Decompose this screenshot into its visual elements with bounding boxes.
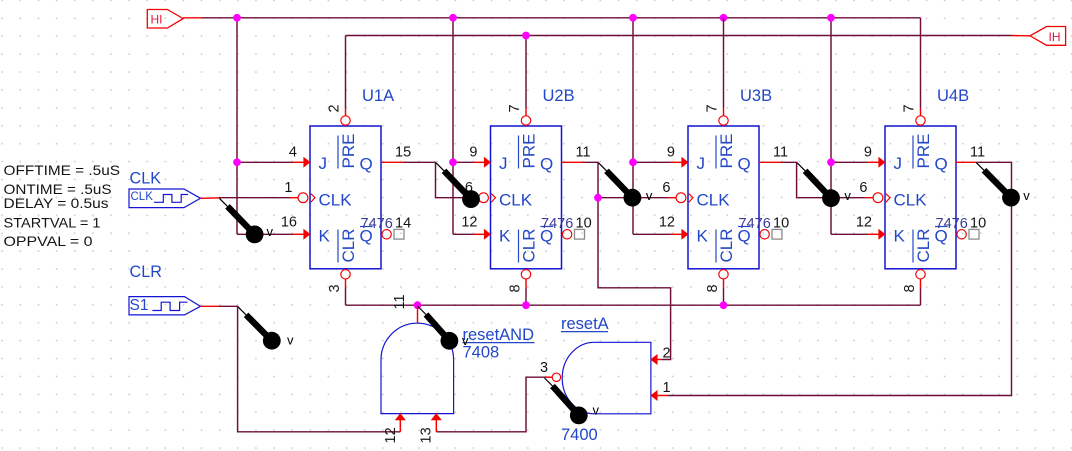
svg-text:10: 10 bbox=[773, 216, 789, 232]
probe v on CLK net bbox=[220, 198, 274, 243]
note ONTIME bbox=[4, 181, 112, 197]
svg-text:CLR: CLR bbox=[914, 228, 933, 262]
pin number 11 (U2B Q) bbox=[576, 145, 591, 161]
svg-text:CLK: CLK bbox=[130, 170, 162, 188]
svg-text:9: 9 bbox=[864, 145, 872, 161]
label resetA bbox=[561, 315, 609, 333]
svg-text:8: 8 bbox=[508, 284, 524, 292]
unconnected pin marker U3B pin 10 bbox=[772, 229, 782, 239]
svg-text:9: 9 bbox=[667, 145, 675, 161]
svg-text:15: 15 bbox=[395, 145, 411, 161]
svg-text:v: v bbox=[1023, 188, 1030, 203]
svg-text:CLK: CLK bbox=[894, 191, 928, 210]
pin number 10 (U4B Qbar) bbox=[970, 216, 986, 232]
switch source S1 bbox=[129, 297, 201, 315]
probe v on U2B Q net bbox=[599, 163, 653, 207]
svg-text:U2B: U2B bbox=[543, 87, 575, 105]
pin number 2 (NAND input) bbox=[663, 346, 671, 362]
label 7400 bbox=[561, 426, 598, 444]
svg-text:v: v bbox=[462, 333, 469, 348]
pin number 12 (U3B K) bbox=[659, 215, 675, 231]
svg-text:7476: 7476 bbox=[739, 216, 771, 232]
svg-text:v: v bbox=[646, 188, 653, 203]
svg-text:K: K bbox=[894, 227, 906, 246]
svg-text:Q: Q bbox=[540, 155, 553, 174]
J-K flip-flop U3B 7476 bbox=[676, 116, 769, 279]
junction J branch U2B bbox=[449, 158, 457, 166]
note OFFTIME bbox=[4, 162, 121, 178]
svg-text:IH: IH bbox=[1049, 30, 1061, 44]
svg-text:J: J bbox=[499, 154, 508, 173]
svg-text:10: 10 bbox=[970, 216, 986, 232]
wire CLK source to U1A CLK bbox=[201, 197, 299, 200]
wire HI to J/K of U4B bbox=[831, 18, 881, 235]
svg-text:7400: 7400 bbox=[561, 426, 598, 444]
junction HI bus at U1A column bbox=[233, 14, 241, 22]
probe v on U3B Q net bbox=[797, 163, 851, 207]
wire HI flag stub bbox=[183, 17, 202, 19]
junction U2B Q branch bbox=[594, 194, 602, 202]
svg-text:K: K bbox=[697, 227, 709, 246]
pin number 8 (U4B CLR) bbox=[902, 284, 918, 292]
probe v on U4B Q net bbox=[976, 162, 1030, 206]
svg-text:7476: 7476 bbox=[361, 216, 393, 232]
svg-text:CLK: CLK bbox=[697, 191, 731, 210]
svg-text:v: v bbox=[844, 188, 851, 203]
svg-text:K: K bbox=[319, 227, 331, 246]
pin number 7 (U2B PRE) bbox=[507, 104, 523, 112]
svg-text:7: 7 bbox=[507, 104, 523, 112]
wire U2B Q to U3B CLK and NAND pin 2 bbox=[562, 162, 677, 359]
svg-text:Q: Q bbox=[738, 155, 751, 174]
svg-text:v: v bbox=[267, 224, 274, 239]
pin number 10 (U2B Qbar) bbox=[576, 216, 592, 232]
pin number 1 (U1A CLK) bbox=[284, 180, 292, 196]
wire HI to J/K of U1A bbox=[237, 18, 306, 235]
svg-text:12: 12 bbox=[659, 215, 675, 231]
junction J branch U4B bbox=[827, 158, 835, 166]
svg-text:13: 13 bbox=[419, 427, 435, 443]
svg-text:3: 3 bbox=[327, 284, 343, 292]
label CLK bbox=[130, 170, 162, 188]
junction IH bus at U2B PRE bbox=[522, 32, 530, 40]
unconnected pin marker U1A pin 14 bbox=[394, 229, 404, 239]
svg-text:8: 8 bbox=[705, 284, 721, 292]
label resetAND bbox=[463, 326, 535, 344]
svg-text:S1: S1 bbox=[130, 297, 149, 314]
pin number 6 (U4B CLK) bbox=[859, 180, 867, 196]
svg-text:OPPVAL = 0: OPPVAL = 0 bbox=[4, 233, 93, 249]
note DELAY bbox=[4, 195, 109, 211]
svg-text:12: 12 bbox=[461, 215, 477, 231]
wire IH bus bbox=[346, 35, 1012, 37]
svg-text:8: 8 bbox=[902, 284, 918, 292]
probe v on reset net bbox=[418, 307, 469, 350]
svg-text:CLK: CLK bbox=[499, 191, 533, 210]
pin number 3 (NAND output) bbox=[540, 360, 548, 376]
J-K flip-flop U2B 7476 bbox=[479, 116, 572, 279]
unconnected pin marker U4B pin 10 bbox=[969, 229, 979, 239]
svg-text:14: 14 bbox=[395, 216, 411, 232]
wire HI bus bbox=[202, 17, 921, 19]
pin number 9 (U4B J) bbox=[864, 145, 872, 161]
svg-text:CLK: CLK bbox=[131, 191, 154, 203]
svg-text:7476: 7476 bbox=[541, 216, 573, 232]
junction CLR bus at AND output bbox=[414, 301, 422, 309]
svg-text:3: 3 bbox=[540, 360, 548, 376]
pin number 8 (U2B CLR) bbox=[508, 284, 524, 292]
wire U1A Q to U2B CLK bbox=[381, 162, 479, 197]
wire CLR bus bbox=[346, 279, 921, 305]
wire HI to U4B PRE bbox=[920, 18, 922, 116]
svg-text:CLR: CLR bbox=[339, 228, 358, 262]
svg-text:Q: Q bbox=[935, 155, 948, 174]
wire U3B Q to U4B CLK bbox=[759, 162, 873, 197]
probe v on CLR net bbox=[238, 307, 294, 350]
svg-text:HI: HI bbox=[151, 13, 163, 27]
label U1A bbox=[362, 87, 394, 105]
pin number 12 (AND input) bbox=[383, 427, 399, 443]
pin number 13 (AND input) bbox=[419, 427, 435, 443]
svg-text:Q: Q bbox=[360, 155, 373, 174]
svg-text:2: 2 bbox=[663, 346, 671, 362]
svg-text:U3B: U3B bbox=[740, 87, 772, 105]
probe v on U1A Q net bbox=[436, 163, 480, 208]
pin number 7 (U3B PRE) bbox=[705, 104, 721, 112]
junction CLR bus at U2B CLR bbox=[522, 301, 530, 309]
pin number 9 (U3B J) bbox=[667, 145, 675, 161]
svg-text:v: v bbox=[287, 333, 294, 348]
wire U4B Q to NAND pin 1 bbox=[651, 162, 1012, 395]
svg-text:K: K bbox=[499, 227, 511, 246]
svg-text:resetA: resetA bbox=[561, 315, 609, 333]
label 7476 of U3B bbox=[739, 216, 771, 232]
label U3B bbox=[740, 87, 772, 105]
svg-text:CLK: CLK bbox=[319, 191, 353, 210]
power flag HI bbox=[147, 10, 183, 29]
svg-text:11: 11 bbox=[773, 145, 788, 161]
svg-text:6: 6 bbox=[859, 180, 867, 196]
pin number 11 (U4B Q) bbox=[970, 145, 985, 161]
junction J branch U3B bbox=[629, 158, 637, 166]
pin number 10 (U3B Qbar) bbox=[773, 216, 789, 232]
junction HI bus at U2B column bbox=[449, 14, 457, 22]
wire AND output pin 11 to CLR bus bbox=[417, 305, 419, 323]
label 7476 of U2B bbox=[541, 216, 573, 232]
pin number 12 (U2B K) bbox=[461, 215, 477, 231]
wire IH flag stub bbox=[1012, 35, 1031, 37]
svg-text:v: v bbox=[593, 402, 600, 417]
pin number 7 (U4B PRE) bbox=[902, 104, 918, 112]
clock source CLK bbox=[129, 189, 201, 208]
pin number 8 (U3B CLR) bbox=[705, 284, 721, 292]
power flag IH bbox=[1030, 27, 1066, 46]
svg-text:16: 16 bbox=[281, 215, 297, 231]
junction HI bus at U4B column bbox=[827, 14, 835, 22]
svg-text:6: 6 bbox=[662, 180, 670, 196]
label 7476 of U4B bbox=[936, 216, 968, 232]
label 7408 bbox=[463, 344, 500, 362]
svg-text:U4B: U4B bbox=[937, 87, 969, 105]
svg-text:J: J bbox=[319, 154, 328, 173]
svg-text:12: 12 bbox=[383, 427, 399, 443]
svg-text:CLR: CLR bbox=[717, 228, 736, 262]
wire HI to J/K of U3B bbox=[633, 18, 684, 235]
pin number 9 (U2B J) bbox=[469, 145, 477, 161]
svg-text:PRE: PRE bbox=[717, 134, 736, 169]
probe v on NAND output bbox=[545, 378, 600, 424]
svg-text:11: 11 bbox=[392, 294, 408, 309]
junction HI bus at U3B PRE bbox=[720, 14, 728, 22]
svg-text:PRE: PRE bbox=[520, 134, 539, 169]
svg-text:2: 2 bbox=[327, 104, 343, 112]
wire IH to U1A PRE bbox=[345, 36, 347, 116]
note OPPVAL bbox=[4, 233, 93, 249]
svg-text:PRE: PRE bbox=[914, 134, 933, 169]
svg-text:1: 1 bbox=[284, 180, 292, 196]
label 7476 of U1A bbox=[361, 216, 393, 232]
pin number 11 (U3B Q) bbox=[773, 145, 788, 161]
pin number 12 (U4B K) bbox=[856, 215, 872, 231]
wire HI to U3B PRE bbox=[723, 18, 725, 116]
wire S1 to AND pin 12 bbox=[201, 306, 401, 432]
junction HI bus at U3B column bbox=[629, 14, 637, 22]
junction CLR bus at U3B CLR bbox=[720, 301, 728, 309]
J-K flip-flop U1A 7476 bbox=[298, 116, 391, 279]
NAND gate resetA 7400 bbox=[552, 342, 657, 414]
pin number 4 (U1A J) bbox=[289, 145, 297, 161]
wire HI to J/K of U2B bbox=[453, 18, 487, 235]
svg-text:11: 11 bbox=[576, 145, 591, 161]
svg-text:7476: 7476 bbox=[936, 216, 968, 232]
label U4B bbox=[937, 87, 969, 105]
svg-text:J: J bbox=[894, 154, 903, 173]
AND gate resetAND 7408 bbox=[381, 323, 454, 420]
svg-text:J: J bbox=[697, 154, 706, 173]
svg-text:U1A: U1A bbox=[362, 87, 394, 105]
wire NAND output pin 3 to AND pin 13 bbox=[436, 377, 552, 432]
svg-text:DELAY = 0.5us: DELAY = 0.5us bbox=[4, 195, 109, 211]
pin number 1 (NAND input) bbox=[663, 380, 671, 396]
svg-text:11: 11 bbox=[970, 145, 985, 161]
pin number 3 (U1A CLR) bbox=[327, 284, 343, 292]
junction J branch U1A bbox=[233, 158, 241, 166]
svg-text:CLR: CLR bbox=[520, 228, 539, 262]
pin number 14 (U1A Qbar) bbox=[395, 216, 411, 232]
svg-text:PRE: PRE bbox=[339, 134, 358, 169]
svg-text:9: 9 bbox=[469, 145, 477, 161]
svg-text:4: 4 bbox=[289, 145, 297, 161]
pin number 6 (U3B CLK) bbox=[662, 180, 670, 196]
pin number 2 (U1A PRE) bbox=[327, 104, 343, 112]
unconnected pin marker U2B pin 10 bbox=[575, 229, 585, 239]
pin number 11 (AND output) bbox=[392, 294, 408, 309]
svg-text:CLR: CLR bbox=[130, 263, 162, 281]
svg-text:1: 1 bbox=[663, 380, 671, 396]
wire IH to U2B PRE bbox=[525, 36, 527, 116]
note STARTVAL bbox=[4, 215, 101, 231]
pin number 6 (U2B CLK) bbox=[465, 180, 473, 196]
pin number 15 (U1A Q) bbox=[395, 145, 411, 161]
svg-text:OFFTIME = .5uS: OFFTIME = .5uS bbox=[4, 162, 121, 178]
svg-text:7: 7 bbox=[705, 104, 721, 112]
svg-text:10: 10 bbox=[576, 216, 592, 232]
svg-text:STARTVAL = 1: STARTVAL = 1 bbox=[4, 215, 101, 231]
pin number 16 (U1A K) bbox=[281, 215, 297, 231]
label CLR bbox=[130, 263, 162, 281]
J-K flip-flop U4B 7476 bbox=[873, 116, 966, 279]
svg-text:7: 7 bbox=[902, 104, 918, 112]
label U2B bbox=[543, 87, 575, 105]
svg-text:12: 12 bbox=[856, 215, 872, 231]
svg-text:resetAND: resetAND bbox=[463, 326, 535, 344]
